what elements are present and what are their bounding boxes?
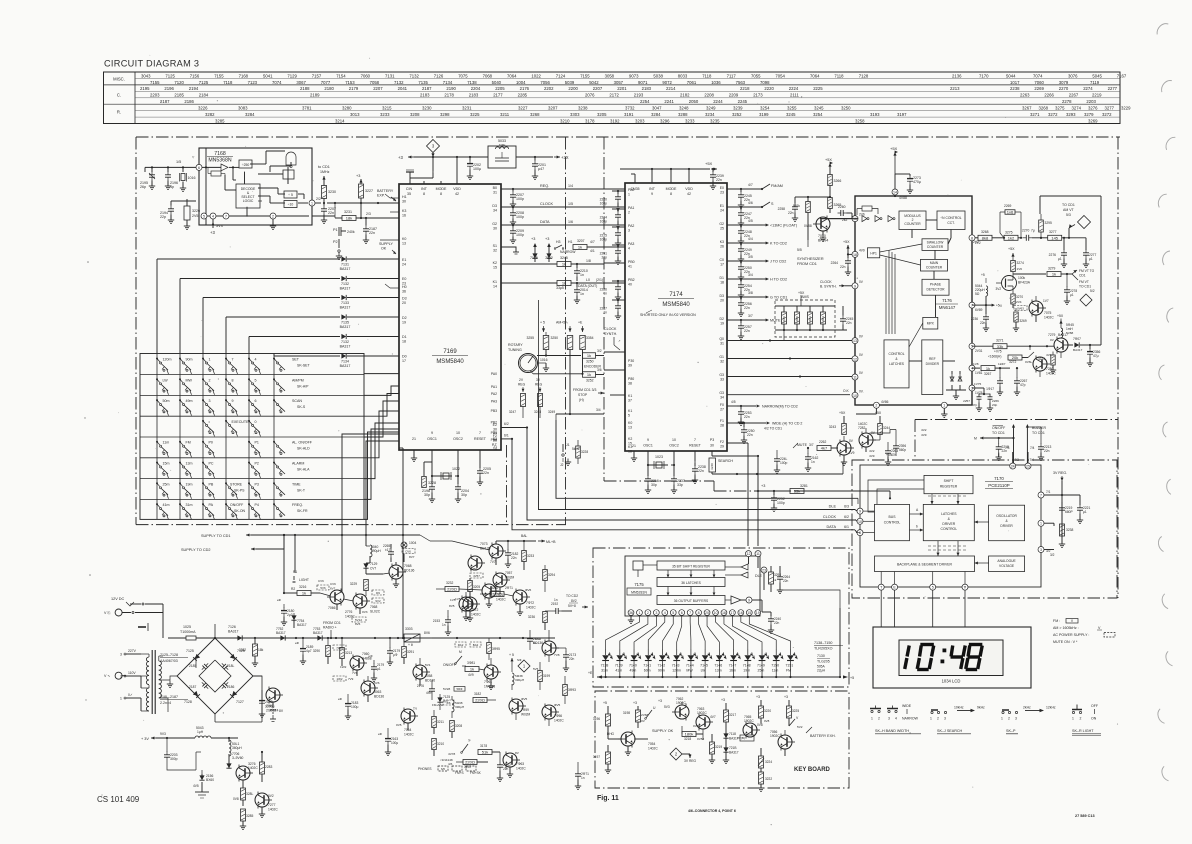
svg-text:7129: 7129 [370,562,378,566]
svg-text:40: 40 [628,283,632,287]
svg-text:36: 36 [402,290,406,294]
svg-text:EXECUTE: EXECUTE [232,420,250,424]
+3 arrows above diodes [531,237,549,241]
svg-text:3254: 3254 [813,112,823,117]
svg-text:19: 19 [756,611,760,615]
svg-text:4V2: 4V2 [869,449,875,453]
svg-text:30: 30 [402,200,406,204]
svg-text:3282: 3282 [205,112,215,117]
svg-text:DETECTOR: DETECTOR [926,288,945,292]
svg-text:Q0: Q0 [719,337,724,341]
svg-text:7: 7 [479,431,481,435]
svg-text:SHIFT: SHIFT [944,479,954,483]
svg-text:3234: 3234 [705,112,715,117]
svg-text:10: 10 [672,438,676,442]
svg-text:2041: 2041 [398,86,408,91]
svg-text:3255: 3255 [787,106,797,111]
svg-text:3266: 3266 [834,179,842,183]
pin circle 5 [201,213,207,219]
svg-text:K3: K3 [720,240,724,244]
svg-text:3/6: 3/6 [597,368,602,372]
svg-text:5: 5 [932,586,934,590]
svg-text:7123: 7123 [248,80,258,85]
svg-text:22n: 22n [511,556,517,560]
svg-text:CD1: CD1 [1079,274,1086,278]
svg-text:22n: 22n [774,621,780,625]
svg-text:7174: 7174 [669,292,683,298]
wire G3 to synth pin11 [727,375,852,377]
svg-text:7074: 7074 [1033,73,1043,78]
wire filter to +3X [516,155,569,160]
svg-text:K2: K2 [628,437,632,441]
bus control box [875,504,910,540]
svg-text:7277: 7277 [268,803,276,807]
svg-text:SK-ALD: SK-ALD [297,447,310,451]
svg-text:+ 3V: + 3V [141,737,149,741]
svg-text:10: 10 [456,431,460,435]
svg-text:7/4: 7/4 [1030,458,1035,462]
svg-text:19m: 19m [186,482,193,486]
label 5V88 560p [870,428,927,457]
svg-text:3781: 3781 [302,106,312,111]
svg-text:SEARCH: SEARCH [718,459,733,463]
svg-text:21: 21 [632,444,636,448]
svg-text:WIDE: WIDE [902,704,912,708]
svg-text:3079: 3079 [1059,80,1069,85]
svg-text:3: 3 [944,717,946,721]
svg-text:BA317: BA317 [340,287,351,291]
svg-text:3063: 3063 [808,316,812,323]
svg-text:22n: 22n [840,265,846,269]
table numbers row 5 [160,99,1096,104]
pin circle 2 [270,213,276,219]
mpx box synth [923,317,938,329]
transistor 7065 [737,715,763,741]
svg-text:2219: 2219 [1092,93,1102,98]
svg-text:3296: 3296 [660,119,670,124]
svg-text:2187: 2187 [189,685,197,689]
capacitor 2014 1n [574,282,588,304]
capacitor 2207b 100p [510,189,524,207]
svg-text:328L: 328L [246,792,254,796]
svg-text:36 LATCHES: 36 LATCHES [681,581,701,585]
svg-text:1: 1 [311,202,313,206]
svg-text:SYNTH.: SYNTH. [604,332,617,336]
gate G2 shape [286,152,296,168]
svg-text:220Ω: 220Ω [447,587,457,592]
svg-text:22n: 22n [328,211,334,215]
svg-text:35 BIT SHIFT REGISTER: 35 BIT SHIFT REGISTER [672,565,710,569]
svg-text:42: 42 [687,192,691,196]
svg-text:1025: 1025 [183,625,191,629]
resistor 3243 7181 [829,411,846,435]
resistor 3219 [709,734,723,763]
svg-text:15: 15 [493,266,497,270]
svg-text:7135: 7135 [418,80,428,85]
svg-text:PA2: PA2 [628,224,634,228]
svg-text:2257: 2257 [963,399,970,403]
svg-text:0: 0 [255,420,257,424]
svg-text:9: 9 [647,438,649,442]
svg-text:2189: 2189 [310,93,320,98]
svg-text:3: 3 [628,229,630,233]
svg-text:2176: 2176 [417,684,424,688]
table numbers row 6 [198,106,1131,111]
svg-text:1: 1 [871,717,873,721]
svg-text:12: 12 [853,357,857,361]
+5X cap 2273 [890,146,921,193]
svg-text:REQ.: REQ. [540,184,549,188]
svg-text:5/3: 5/3 [1066,213,1071,217]
svg-text:3244: 3244 [883,426,890,430]
svg-text:1016: 1016 [540,358,548,362]
svg-text:1: 1 [120,697,122,701]
bus REQ wire [501,184,625,190]
svg-text:2V4: 2V4 [1016,300,1022,304]
svg-text:3267: 3267 [984,372,992,376]
svg-text:PCE2110P: PCE2110P [988,483,1009,488]
svg-text:CLOCK: CLOCK [604,327,617,331]
svg-text:CS 101 409: CS 101 409 [97,795,140,804]
module frame outer top [136,136,1120,138]
svg-text:7125: 7125 [165,73,175,78]
svg-text:BA317: BA317 [313,631,323,635]
svg-text:3238: 3238 [578,106,588,111]
svg-text:1902C: 1902C [697,711,707,715]
7174 bottom pin labels [632,438,714,448]
7169 right pin labels [492,186,498,452]
scan specks [118,55,1118,825]
svg-text:90m: 90m [186,358,193,362]
svg-text:D1: D1 [720,276,725,280]
capacitor 2263 47n [880,440,898,465]
svg-text:STORE: STORE [230,482,243,486]
svg-text:7130: 7130 [817,654,825,658]
svg-text:+V75: +V75 [994,350,1002,354]
svg-text:3229: 3229 [350,582,357,586]
svg-text:BATTERY: BATTERY [377,189,394,193]
svg-text:4V86: 4V86 [881,400,889,404]
svg-text:J1: J1 [566,443,570,447]
svg-text:3205: 3205 [473,585,480,589]
svg-text:7: 7 [232,358,234,362]
svg-text:12kHz: 12kHz [1046,706,1056,710]
svg-text:2.2n×4: 2.2n×4 [160,701,171,705]
svg-text:FM+SK: FM+SK [470,771,482,775]
svg-text:CONTROL: CONTROL [884,521,901,525]
svg-text:3Φ81: 3Φ81 [467,661,475,665]
svg-text:1402C: 1402C [648,747,658,751]
svg-text:H TO CD2: H TO CD2 [770,278,787,282]
svg-text:24: 24 [720,209,724,213]
svg-text:30p: 30p [424,493,430,497]
svg-text:OSC2: OSC2 [669,444,679,448]
svg-text:D2: D2 [402,316,407,320]
svg-text:2266: 2266 [1044,93,1054,98]
svg-text:STOP: STOP [578,393,588,397]
svg-text:3250: 3250 [550,336,558,340]
svg-text:MUTE: MUTE [770,319,781,323]
svg-text:P3: P3 [710,438,714,442]
transistor 7279 mixer [1048,333,1071,358]
svg-text:3227: 3227 [365,189,373,193]
svg-text:2183: 2183 [642,86,652,91]
resistor 1064 in AMS [821,306,826,330]
svg-text:3249: 3249 [548,410,555,414]
resistor 3283 vert [260,751,273,782]
svg-text:0V5: 0V5 [396,723,402,727]
svg-text:3233: 3233 [685,119,695,124]
svg-text:2214: 2214 [666,86,676,91]
svg-text:G3: G3 [719,373,724,377]
trimmer P1 [333,227,355,236]
svg-text:1017: 1017 [1010,80,1020,85]
svg-text:22n: 22n [483,471,489,475]
svg-text:31m: 31m [601,669,608,673]
svg-text:E1: E1 [720,204,724,208]
svg-text:T1000mA: T1000mA [180,630,196,634]
svg-text:2285: 2285 [518,93,528,98]
svg-text:P2: P2 [255,462,259,466]
svg-text:7155: 7155 [580,73,590,78]
transistor 7954 label [648,742,658,751]
transistor 7072b lower [450,589,481,620]
resistor 3285 [229,766,254,829]
capacitor 2238 22n [692,465,706,483]
svg-text:1v6: 1v6 [1007,210,1014,215]
svg-text:7144: 7144 [686,664,694,668]
bridge inner caps [189,662,235,691]
transistor 7073b BD136 top [468,555,485,572]
svg-text:3281: 3281 [800,484,808,488]
svg-text:3214: 3214 [335,119,345,124]
supply ok label [379,242,396,254]
+5X mixer [1057,314,1064,324]
transistor 7064b TY [396,707,418,737]
svg-text:P3: P3 [255,482,259,486]
svg-text:4k7: 4k7 [821,446,828,451]
resistor 3217 [721,698,736,730]
svg-text:FM :: FM : [1053,619,1060,623]
title CIRCUIT DIAGRAM 3 [104,59,199,69]
svg-text:7: 7 [694,438,696,442]
resistor 3193 vert [563,676,576,704]
svg-text:3203: 3203 [635,119,645,124]
svg-text:1402C: 1402C [554,719,564,723]
svg-text:4: 4 [664,611,666,615]
module frame keyboard box [595,691,849,788]
svg-text:7140: 7140 [629,664,637,668]
transformer core [152,650,155,714]
AMS resistor drops [770,330,797,362]
svg-text:D9: D9 [376,591,380,595]
svg-text:21: 21 [412,437,416,441]
transistor 7067 2SB124 [255,676,284,722]
svg-text:3192: 3192 [610,119,620,124]
svg-text:1k: 1k [587,372,591,377]
svg-text:C0: C0 [720,258,725,262]
svg-text:27: 27 [720,408,724,412]
divider 5 box [284,191,297,198]
svg-text:LW: LW [163,378,169,382]
svg-text:4V9: 4V9 [859,248,865,252]
svg-text:2204: 2204 [471,86,481,91]
diode pair at synth pin4 [946,371,966,399]
footer 27 589 C13 [1075,814,1095,818]
capacitor 2258 22n [778,196,809,222]
svg-text:6/1: 6/1 [504,434,509,438]
svg-text:3199: 3199 [759,112,769,117]
svg-text:3205: 3205 [597,112,607,117]
7174 right pin labels [719,186,724,449]
svg-text:390μH: 390μH [371,549,381,553]
svg-text:FM: FM [186,441,191,445]
svg-text:100k: 100k [1018,276,1026,280]
svg-text:SL02C: SL02C [370,610,381,614]
transformer secondary winding [159,656,196,712]
signal arrow K TO CD2 [748,237,787,246]
svg-text:31m: 31m [186,503,193,507]
svg-text:1402C: 1402C [404,733,414,737]
svg-text:1058: 1058 [425,674,433,678]
svg-text:MPX: MPX [927,322,935,326]
svg-text:2V5: 2V5 [192,214,198,218]
capacitor 2210 1n [574,263,588,281]
svg-text:+3: +3 [756,695,760,699]
to CD2 labels right [566,594,588,609]
capacitor 2270 7u [1022,229,1048,241]
analogue voltage box [989,556,1025,572]
svg-text:1/5: 1/5 [176,160,181,164]
svg-text:3269: 3269 [1020,319,1027,323]
svg-text:2: 2 [1008,717,1010,721]
svg-text:TUNING: TUNING [508,348,522,352]
svg-text:7279: 7279 [1048,333,1056,337]
svg-text:G3: G3 [719,391,724,395]
rail junction varistor 3303 [398,627,432,647]
left margin specks [84,261,102,795]
svg-text:27 589 C13: 27 589 C13 [1075,814,1095,818]
svg-text:2188: 2188 [300,86,310,91]
svg-text:RA2: RA2 [458,643,464,647]
capacitor 2254 22n on 7174 pin [727,278,762,299]
svg-text:7V7: 7V7 [490,560,496,564]
synth inner wires [880,220,955,361]
svg-text:180k: 180k [685,732,694,737]
svg-text:FROM CD1: FROM CD1 [323,621,341,625]
transistor 7075 osc [1013,296,1054,322]
KEY BOARD label [794,767,831,773]
svg-text:7168: 7168 [214,151,226,157]
svg-text:14: 14 [893,191,897,195]
svg-text:5/5: 5/5 [797,248,802,252]
LCD module outer box [873,627,1031,688]
svg-text:3288: 3288 [678,112,688,117]
svg-text:2196: 2196 [164,86,174,91]
parts table frame [104,72,1121,124]
2V REG 3V REG resistors [509,378,555,418]
7174 bottom wires [631,451,712,476]
resistor 3276 vert [1039,214,1052,239]
svg-text:+5X: +5X [1057,314,1064,318]
7175 inner arrows [667,570,716,596]
diode 7129 CV7 [363,560,383,574]
svg-text:4Φn: 4Φn [426,691,432,695]
svg-text:+5: +5 [850,676,854,680]
svg-text:7125–7128: 7125–7128 [160,653,178,657]
capacitor 2251 left of 7174 [600,244,625,265]
svg-text:MN5281N: MN5281N [631,590,647,594]
svg-text:3: 3 [888,717,890,721]
resistor 1k 3250 box [583,349,605,369]
svg-text:90m: 90m [658,669,665,673]
svg-text:BA317: BA317 [228,630,239,634]
7175 pin 23 [761,567,767,590]
svg-text:4V9: 4V9 [869,454,875,458]
capacitor 2224 left of 7174 [600,208,625,229]
svg-text:7057: 7057 [505,571,513,575]
svg-text:P1: P1 [333,228,338,232]
svg-text:PA1: PA1 [491,385,497,389]
7175 bottom pin circles [628,610,761,616]
svg-text:MUTE ON : V *: MUTE ON : V * [1053,640,1078,644]
7170 right rc network [1044,481,1091,557]
svg-text:÷250: ÷250 [242,163,250,167]
svg-text:3249: 3249 [706,106,716,111]
svg-text:3226: 3226 [192,209,200,213]
svg-text:33: 33 [720,378,724,382]
svg-text:218L: 218L [227,664,235,668]
svg-text:2153: 2153 [433,619,440,623]
svg-text:2283: 2283 [265,765,273,769]
svg-text:SK-T: SK-T [297,488,306,492]
svg-text:1n: 1n [533,641,537,645]
svg-text:7139: 7139 [615,664,623,668]
filter 5033 1MHz box [488,139,516,168]
svg-text:7: 7 [689,611,691,615]
svg-text:PHONES: PHONES [418,767,431,771]
svg-text:3291: 3291 [407,650,414,654]
resistor 3198 sw [623,701,649,728]
svg-text:218L–2187: 218L–2187 [160,695,178,699]
svg-text:2187: 2187 [160,99,170,104]
svg-text:2208: 2208 [704,93,714,98]
svg-text:2180: 2180 [324,86,334,91]
svg-text:16: 16 [853,217,857,221]
backplane segment driver box [875,556,975,572]
svg-text:39: 39 [628,364,632,368]
7175 fanout to LEDs [606,616,791,649]
svg-text:2136: 2136 [952,73,962,78]
svg-text:+5: +5 [603,701,607,705]
LED row [601,649,797,678]
svg-text:22n: 22n [788,211,794,215]
svg-text:7120: 7120 [174,80,184,85]
svg-text:2111: 2111 [790,93,799,98]
dashed box D9 9V2 [372,590,384,603]
svg-text:7V8: 7V8 [554,653,560,657]
transistor 7073 BD135 [420,535,508,565]
svg-text:7154: 7154 [336,73,346,78]
svg-text:220Ω: 220Ω [475,698,485,703]
svg-text:2238: 2238 [1010,86,1020,91]
svg-text:17: 17 [720,263,724,267]
svg-text:REGISTER: REGISTER [940,485,958,489]
7130 TLG205 label [817,654,830,673]
resistor 3233 vert [522,541,535,570]
capacitor 2244 100p mute [757,450,788,473]
svg-text:2270: 2270 [1022,229,1030,233]
